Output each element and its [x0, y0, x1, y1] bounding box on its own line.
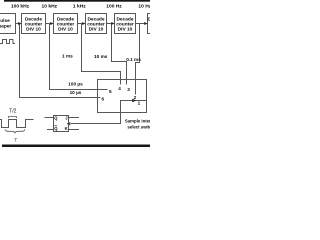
svg-text:5: 5: [109, 89, 112, 94]
svg-text:DIV 10: DIV 10: [89, 27, 104, 33]
svg-text:Q: Q: [54, 116, 58, 121]
svg-text:shaper: shaper: [0, 23, 11, 29]
svg-text:DIV 10: DIV 10: [118, 27, 133, 33]
svg-text:2: 2: [134, 95, 137, 100]
wire K input stub: [69, 129, 80, 131]
wire U1 to U2: [16, 23, 21, 25]
svg-text:DIV 10: DIV 10: [26, 27, 41, 33]
svg-text:10 ms: 10 ms: [94, 54, 108, 59]
switch box S1: [98, 80, 147, 113]
arrowhead into U2: [18, 22, 21, 25]
svg-text:6: 6: [102, 97, 105, 102]
svg-text:1: 1: [138, 101, 141, 106]
svg-text:Pulse: Pulse: [0, 18, 10, 24]
block U1 pulse shaper: [0, 14, 16, 34]
svg-text:T/2: T/2: [9, 109, 16, 115]
waveform pulse-shaper output symbol: [0, 40, 15, 44]
svg-text:0.1 ms: 0.1 ms: [126, 57, 141, 62]
svg-text:T: T: [14, 138, 17, 143]
top rule bar: [4, 0, 150, 2]
wire Qbar output stub: [47, 129, 54, 131]
svg-text:100 kHz: 100 kHz: [11, 3, 30, 9]
arrowhead switch wiper: [132, 99, 136, 103]
wire 10ms tap: 100 Hz line down, right, down to pin 3: [112, 24, 127, 85]
svg-text:10 Hz: 10 Hz: [138, 3, 150, 9]
bottom rule bar: [2, 145, 150, 148]
arrowheads: [18, 22, 147, 126]
wire U4 to U5: [107, 23, 114, 25]
svg-text:J: J: [65, 116, 68, 121]
flip-flop U7 box: [54, 116, 69, 132]
clock triangle on U7: [66, 122, 70, 126]
svg-text:1 kHz: 1 kHz: [73, 3, 86, 9]
wire 1ms tap: 1 kHz line down, right, down to pin 4: [82, 24, 121, 85]
svg-text:100 µs: 100 µs: [68, 82, 83, 87]
wire 10us tap: 100 kHz line down and right to pin 6: [20, 24, 101, 98]
svg-text:select switch: select switch: [127, 125, 150, 130]
block U6 decade counter (clipped at right edge): [148, 14, 162, 34]
arrowhead into U6: [144, 22, 147, 25]
wire wiper common: right edge to arrow, down through box, left to flip-flop clock: [71, 101, 147, 124]
arrowhead into U3: [50, 22, 53, 25]
arrowhead into U5: [111, 22, 114, 25]
svg-text:3: 3: [127, 87, 130, 92]
svg-text:10 µs: 10 µs: [70, 90, 82, 95]
labels: [11, 3, 152, 9]
wire J input stub: [69, 117, 80, 119]
wire Q output stub: [45, 117, 54, 119]
T brace: [5, 129, 25, 133]
svg-text:K: K: [65, 126, 68, 131]
block U3 decade counter DIV 10: [54, 14, 78, 34]
wire 100us tap: 10 kHz line down and right to pin 5: [50, 24, 108, 90]
block U4 decade counter DIV 10: [86, 14, 107, 34]
svg-text:10 kHz: 10 kHz: [42, 3, 58, 9]
svg-text:100 Hz: 100 Hz: [106, 3, 122, 9]
wire U2 to U3: [46, 23, 53, 25]
block U5 decade counter DIV 10: [115, 14, 136, 34]
svg-text:Sample interval: Sample interval: [125, 119, 150, 124]
svg-text:DIV 10: DIV 10: [58, 27, 73, 33]
svg-text:Decade: Decade: [147, 17, 150, 23]
waveform T output square wave: [0, 120, 34, 128]
T/2 bracket: [9, 117, 17, 119]
wire 0.1ms tap: 10 Hz line down, jog left, down to pin 2: [136, 24, 140, 95]
block U2 decade counter DIV 10: [22, 14, 46, 34]
wire U3 to U4: [78, 23, 85, 25]
arrowhead into U4: [82, 22, 85, 25]
svg-text:1 ms: 1 ms: [62, 54, 73, 59]
svg-text:Q: Q: [54, 126, 58, 131]
svg-text:4: 4: [118, 86, 121, 91]
wire U5 to U6: [136, 23, 147, 25]
